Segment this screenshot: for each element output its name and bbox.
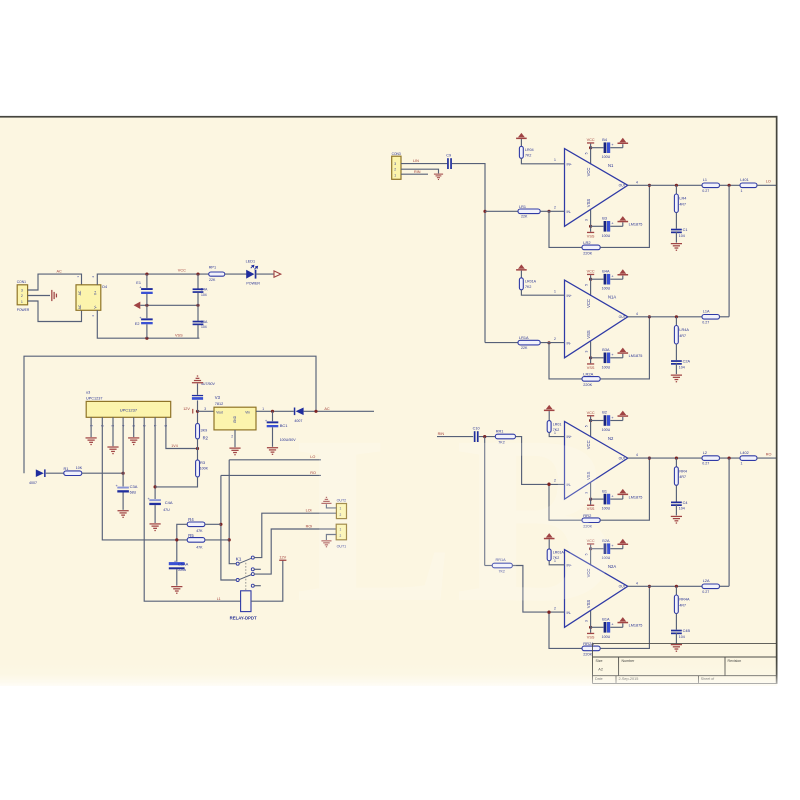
svg-text:100U: 100U xyxy=(602,365,611,369)
resistor LR04 7K2 xyxy=(519,146,523,158)
wire U3 pin5 xyxy=(133,417,135,437)
capacitor C4A 47U xyxy=(148,496,161,505)
wire xyxy=(622,222,624,226)
svg-text:VSS: VSS xyxy=(587,366,595,370)
ground below C4A xyxy=(150,523,161,531)
wire xyxy=(197,325,199,338)
svg-text:100U: 100U xyxy=(602,287,611,291)
wire output N1A xyxy=(628,316,702,318)
wire LR04 to IN+ xyxy=(521,158,564,164)
wire R4 left to C5AA xyxy=(177,524,187,562)
capacitor C4 104 xyxy=(671,502,682,507)
connector CON1 xyxy=(17,285,27,305)
relay contact NC 2 xyxy=(251,584,254,587)
wire xyxy=(590,226,592,232)
wire CON3 pin1 stub xyxy=(401,173,428,175)
svg-text:C4: C4 xyxy=(683,501,688,505)
wire B1 to ground xyxy=(610,498,623,500)
wire N1A output riser xyxy=(728,185,730,316)
svg-text:4R7: 4R7 xyxy=(679,475,686,479)
wire B2A to ground xyxy=(610,548,623,550)
svg-text:C5AA: C5AA xyxy=(178,561,189,566)
wire LO sense xyxy=(229,459,321,461)
svg-text:E1: E1 xyxy=(136,281,141,285)
wire pin5 N1 xyxy=(590,148,592,165)
wire NC2 stub xyxy=(254,585,261,587)
inductor L1 0.27 xyxy=(702,183,720,188)
svg-text:0.27: 0.27 xyxy=(702,462,709,466)
wire xyxy=(622,276,624,280)
power port VSS N1A xyxy=(587,363,594,364)
node zobel tap N1A xyxy=(675,315,678,318)
wire pin3 N2 xyxy=(590,483,592,499)
wire xyxy=(197,293,199,306)
ground arrow at B1 xyxy=(618,489,629,495)
svg-text:4: 4 xyxy=(636,453,638,457)
power port VCC N2 xyxy=(587,415,594,416)
resistor RR01A 7K2 xyxy=(547,549,551,561)
svg-text:L401: L401 xyxy=(740,178,748,182)
wire zobel N2A xyxy=(675,586,677,595)
connector OUT2 xyxy=(336,504,346,519)
wire xyxy=(622,545,624,549)
node RO bridge xyxy=(728,457,731,460)
svg-text:1: 1 xyxy=(554,290,556,294)
ground arrow above LR04 xyxy=(516,133,527,139)
wire pin3 N2A xyxy=(590,611,592,627)
resistor LR1A 22K xyxy=(518,340,540,345)
svg-text:V-: V- xyxy=(94,305,98,308)
svg-text:2: 2 xyxy=(554,206,556,210)
svg-text:104: 104 xyxy=(679,234,685,238)
ground arrow at B4 xyxy=(618,138,629,144)
svg-text:LR04: LR04 xyxy=(525,148,534,152)
svg-text:47U: 47U xyxy=(163,508,170,512)
wire U3 pin7 xyxy=(154,417,156,499)
wire xyxy=(146,294,148,305)
wire xyxy=(675,632,677,643)
wire pin5 N2A xyxy=(590,549,592,566)
wire RR01 to IN+ xyxy=(549,432,564,436)
wire xyxy=(122,493,124,510)
wire pin5 N2 xyxy=(590,421,592,438)
svg-text:Vout: Vout xyxy=(216,411,222,415)
svg-text:1: 1 xyxy=(262,407,264,411)
svg-text:R1: R1 xyxy=(64,467,69,471)
svg-text:L402: L402 xyxy=(740,451,748,455)
wire LOi xyxy=(254,513,336,557)
svg-text:L2: L2 xyxy=(703,451,707,455)
ground below C4B xyxy=(671,644,682,652)
wire xyxy=(272,411,274,421)
svg-text:3: 3 xyxy=(394,162,396,166)
svg-text:IN-: IN- xyxy=(567,342,572,346)
wire RR01A to IN+ xyxy=(549,561,564,565)
svg-text:3: 3 xyxy=(21,289,23,293)
svg-text:104: 104 xyxy=(679,635,685,639)
capacitor C3A xyxy=(116,483,129,492)
ground arrow (left) mid rail xyxy=(134,302,141,309)
svg-text:AC: AC xyxy=(78,304,82,309)
wire VCC to B2 xyxy=(591,420,604,422)
wire xyxy=(590,627,592,633)
wire VSS to B3 xyxy=(591,225,604,227)
svg-text:C4A: C4A xyxy=(165,500,173,505)
svg-text:22K: 22K xyxy=(521,346,528,350)
resistor R4 47K xyxy=(187,522,205,527)
svg-text:3: 3 xyxy=(204,407,206,411)
svg-text:1: 1 xyxy=(741,189,743,193)
wire LIN input xyxy=(401,163,447,165)
wire xyxy=(622,144,624,148)
wire B2 to ground xyxy=(610,420,623,422)
node zobel tap N1 xyxy=(675,184,678,187)
svg-text:LR2A: LR2A xyxy=(583,372,593,377)
wire xyxy=(720,184,741,186)
node IN- N2A tee xyxy=(547,611,550,614)
junction E1 E2 mid xyxy=(145,304,148,307)
svg-text:C4B: C4B xyxy=(683,629,691,633)
svg-text:LM1875: LM1875 xyxy=(629,495,643,499)
node VSS pin3 N2A xyxy=(589,626,592,629)
resistor R2 3K9 xyxy=(196,423,200,439)
node output N2 xyxy=(648,457,651,460)
wire xyxy=(197,400,199,411)
svg-text:OUT: OUT xyxy=(619,184,626,188)
bottom margin xyxy=(0,689,800,800)
wire LO out xyxy=(757,184,776,186)
svg-text:C3A: C3A xyxy=(130,484,138,489)
sheet border right xyxy=(776,116,778,684)
capacitor B3A 100U xyxy=(604,352,615,363)
capacitor C4B 104 xyxy=(671,630,682,635)
node VSS pin3 N1A xyxy=(589,356,592,359)
capacitor C4A 104 xyxy=(193,288,204,293)
op-amp N1A xyxy=(565,280,628,358)
node VSS pin3 N1 xyxy=(589,225,592,228)
wire VSS rail xyxy=(97,310,199,338)
svg-text:R4: R4 xyxy=(188,517,194,522)
wire to LR1 xyxy=(485,210,518,212)
ground below C3A xyxy=(118,510,129,518)
svg-text:LR1A: LR1A xyxy=(519,336,529,340)
svg-text:22K: 22K xyxy=(521,215,528,219)
svg-text:LM1875: LM1875 xyxy=(629,624,643,628)
resistor R3 100K xyxy=(196,460,200,477)
capacitor BC1 100U/50V xyxy=(265,418,278,427)
ground arrow above LR04A xyxy=(516,264,527,270)
wire xyxy=(197,274,199,288)
junction E1 VCC xyxy=(145,273,148,276)
wire xyxy=(176,569,178,585)
node VSS pin3 N2 xyxy=(589,498,592,501)
svg-text:3: 3 xyxy=(584,219,588,221)
junction C4A C6A mid xyxy=(196,304,199,307)
ground at CON1 (rotated) xyxy=(51,290,57,301)
wire output N2A xyxy=(628,585,702,587)
node input bus tap N1 xyxy=(483,210,486,213)
wire xyxy=(622,354,624,358)
svg-text:AC: AC xyxy=(78,290,82,295)
wire xyxy=(622,623,624,627)
resistor RR1 7K2 xyxy=(495,434,515,439)
svg-text:LR01A: LR01A xyxy=(525,280,537,284)
ground at OUT1 xyxy=(321,540,331,547)
wire V3 Vin xyxy=(256,410,294,412)
svg-text:100U: 100U xyxy=(602,155,611,159)
wire 0V mid rail xyxy=(140,304,198,306)
wire pin5 N1A xyxy=(590,279,592,296)
wire coil to 12V xyxy=(251,560,283,601)
wire xyxy=(590,358,592,364)
wire AC line 1 xyxy=(28,274,82,290)
ground below BC1 xyxy=(267,447,278,455)
wire VSS to B1 xyxy=(591,498,604,500)
svg-text:UPC1237: UPC1237 xyxy=(120,408,138,413)
wire AC line 2 xyxy=(28,301,82,322)
svg-text:104: 104 xyxy=(679,365,685,369)
svg-text:B4A: B4A xyxy=(602,269,610,273)
power port VSS N1 xyxy=(587,232,594,233)
svg-text:B3: B3 xyxy=(602,217,607,221)
inductor L2 0.27 xyxy=(702,456,720,461)
wire xyxy=(154,505,156,523)
svg-text:VSS: VSS xyxy=(586,330,591,339)
wire N2A output riser xyxy=(728,458,730,586)
svg-text:OUT: OUT xyxy=(619,315,626,319)
junction R4 RO xyxy=(219,523,222,526)
resistor LR4 4R7 xyxy=(674,194,678,213)
svg-text:OUT: OUT xyxy=(619,457,626,461)
wire R5 right xyxy=(205,539,229,541)
wire OUT2 pin1 to ground xyxy=(326,504,336,508)
svg-text:7K2: 7K2 xyxy=(525,285,531,289)
svg-text:L1: L1 xyxy=(217,597,221,601)
ground below C4 xyxy=(671,516,682,524)
svg-text:BC1: BC1 xyxy=(280,423,289,428)
svg-text:VCC: VCC xyxy=(586,168,591,177)
wire VSS to B3A xyxy=(591,357,604,359)
wire output N2 xyxy=(628,457,702,459)
wire LED1 to VCC port xyxy=(255,273,274,275)
svg-text:4007: 4007 xyxy=(29,481,37,485)
ground at CON3 xyxy=(434,174,443,180)
resistor RR1A 7K2 xyxy=(492,563,512,568)
svg-text:C4A: C4A xyxy=(200,288,208,292)
capacitor C9 xyxy=(447,158,452,169)
wire D1 to R1 xyxy=(46,472,64,474)
wire xyxy=(590,499,592,505)
svg-text:4: 4 xyxy=(636,312,638,316)
wire VCC rail xyxy=(97,274,208,285)
junction C4A VCC xyxy=(196,273,199,276)
svg-text:L1: L1 xyxy=(703,178,707,182)
node IN- N2 tee xyxy=(547,483,550,486)
ground arrow at B4A xyxy=(618,269,629,275)
svg-text:AC: AC xyxy=(57,269,63,273)
title block frame xyxy=(593,644,777,684)
svg-text:4: 4 xyxy=(636,180,638,184)
IC U3 UPC1237 xyxy=(86,401,171,417)
node IN- N1A xyxy=(547,341,550,344)
capacitor B2 100U xyxy=(604,415,615,426)
inductor L1A 0.27 xyxy=(702,315,720,320)
wire xyxy=(590,275,592,279)
relay contact NO 1 xyxy=(251,556,254,559)
wire xyxy=(197,305,199,321)
svg-text:CON1: CON1 xyxy=(17,280,26,284)
svg-text:4R7: 4R7 xyxy=(679,202,686,206)
op-amp N2 xyxy=(565,421,628,499)
relay arm 1 xyxy=(239,558,252,563)
wire xyxy=(272,427,274,447)
svg-text:4R7: 4R7 xyxy=(679,603,686,607)
node output N1 xyxy=(648,184,651,187)
node VCC pin5 N2 xyxy=(589,419,592,422)
wire B3A to ground xyxy=(610,357,623,359)
wire xyxy=(675,504,677,515)
svg-text:L1A: L1A xyxy=(703,310,710,314)
power port 12V relay xyxy=(279,560,286,561)
wire feedback N2A xyxy=(549,612,582,648)
capacitor E2 xyxy=(139,315,152,324)
svg-text:u3: u3 xyxy=(86,390,90,394)
wire xyxy=(720,316,730,318)
wire RR1 to IN- N2 xyxy=(516,437,565,485)
wire xyxy=(590,144,592,148)
node IN- N1 xyxy=(547,210,550,213)
capacitor B3 100U xyxy=(604,221,615,232)
svg-text:UPC1237: UPC1237 xyxy=(86,397,102,401)
wire feedback return N1 xyxy=(600,185,649,247)
svg-text:104: 104 xyxy=(201,325,207,329)
svg-text:0.27: 0.27 xyxy=(702,189,709,193)
node VCC pin5 N2A xyxy=(589,547,592,550)
inductor L2A 0.27 xyxy=(702,584,720,589)
svg-text:220K: 220K xyxy=(583,653,592,657)
wire xyxy=(590,545,592,549)
svg-text:POWER: POWER xyxy=(246,281,260,285)
LED LED1 POWER xyxy=(246,265,257,279)
wire xyxy=(675,485,677,501)
wire xyxy=(720,585,730,587)
wire VSS to B1A xyxy=(591,626,604,628)
svg-text:Vin: Vin xyxy=(245,411,250,415)
wire RO out xyxy=(757,457,776,459)
svg-text:OUT: OUT xyxy=(619,585,626,589)
node output N2A xyxy=(648,585,651,588)
wire B1A to ground xyxy=(610,626,623,628)
sheet border top xyxy=(0,116,778,118)
relay arm 2 xyxy=(239,575,252,580)
svg-text:7812: 7812 xyxy=(215,402,223,406)
wire xyxy=(548,411,550,421)
junction R4 R5 C5AA pin2bus xyxy=(175,538,178,541)
svg-text:IN-: IN- xyxy=(567,210,572,214)
wire feedback N2 xyxy=(549,484,582,520)
wire VCC to B4A xyxy=(591,278,604,280)
wire xyxy=(675,363,677,374)
schematic sheet xyxy=(0,117,777,686)
relay coil K1 xyxy=(241,591,251,612)
svg-text:R5: R5 xyxy=(188,533,194,538)
svg-text:LM1875: LM1875 xyxy=(629,354,643,358)
svg-text:C2A: C2A xyxy=(683,360,691,364)
wire xyxy=(520,139,522,146)
svg-text:LM1875: LM1875 xyxy=(629,223,643,227)
wire RP1 to LED1 xyxy=(225,273,247,275)
inductor L402 xyxy=(740,456,757,461)
ground below C5AA xyxy=(171,586,182,594)
node LO bridge xyxy=(728,184,731,187)
regulator V3 7812 xyxy=(214,407,256,430)
svg-text:3K9: 3K9 xyxy=(201,429,208,433)
wire xyxy=(675,344,677,360)
power port VCC N2A xyxy=(587,543,594,544)
svg-text:GND: GND xyxy=(233,415,237,423)
svg-text:47K: 47K xyxy=(196,529,203,533)
svg-text:LO: LO xyxy=(766,180,771,184)
wire LO to relay xyxy=(229,460,236,564)
svg-text:VSS: VSS xyxy=(587,234,595,238)
svg-text:RR4: RR4 xyxy=(679,469,687,473)
wire feedback N1A xyxy=(549,343,582,379)
wire U3 pin3 xyxy=(112,417,114,446)
power port VCC N1A xyxy=(587,274,594,275)
resistor RR2A 220K xyxy=(582,646,600,651)
resistor R5 47K xyxy=(187,538,205,543)
svg-text:3: 3 xyxy=(584,351,588,353)
inductor L401 xyxy=(740,183,757,188)
capacitor C10 xyxy=(474,431,479,442)
wire C9 to input bus xyxy=(452,164,485,343)
svg-text:N1: N1 xyxy=(608,163,614,168)
svg-text:2: 2 xyxy=(231,435,233,439)
node zobel tap N2A xyxy=(675,585,678,588)
svg-text:C9: C9 xyxy=(446,154,451,158)
ground arrow at B3 xyxy=(618,216,629,222)
wire R2 to 12V xyxy=(197,411,199,423)
ground below C1 xyxy=(671,243,682,251)
svg-text:B4: B4 xyxy=(602,138,607,142)
resistor LR2A 220K xyxy=(582,377,600,382)
bridge rectifier pin text xyxy=(78,290,98,309)
wire VCC to B2A xyxy=(591,548,604,550)
wire to LR1A xyxy=(485,342,518,344)
svg-text:RO: RO xyxy=(766,452,772,456)
wire feedback return N2 xyxy=(600,458,649,520)
wire U3 pin1 xyxy=(90,417,92,437)
resistor RR4 4R7 xyxy=(674,467,678,486)
wire B3 to ground xyxy=(610,225,623,227)
svg-text:RP1: RP1 xyxy=(209,265,216,269)
svg-text:C6A: C6A xyxy=(200,320,208,324)
ground arrow at B2A xyxy=(618,539,629,545)
wire U3 pin6 relay drive xyxy=(144,417,240,601)
wire OUT1 pin2 to ground xyxy=(326,535,336,541)
wire pin3 N1 xyxy=(590,210,592,226)
wire B4 to ground xyxy=(610,147,623,149)
node R input bus xyxy=(483,435,486,438)
capacitor C5AA 220u xyxy=(169,558,185,569)
connector OUT1 xyxy=(336,524,346,540)
wire R input bus down xyxy=(484,437,486,566)
resistor RR2 220K xyxy=(582,518,600,523)
connector CON3 xyxy=(392,156,401,179)
svg-text:0.27: 0.27 xyxy=(702,320,709,324)
svg-text:100U: 100U xyxy=(602,234,611,238)
svg-text:47K: 47K xyxy=(196,546,203,550)
